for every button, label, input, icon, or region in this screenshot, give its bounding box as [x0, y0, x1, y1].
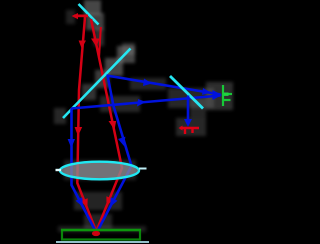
lens right glint [139, 168, 147, 170]
compression artifact shading [54, 0, 233, 232]
arrowhead on B3 (into filament) [184, 119, 192, 127]
arrowhead on H2 [137, 99, 146, 107]
arrowhead on R2 lower [106, 196, 113, 206]
ray B2 (blue, mirror M2 down through lens to focus, left) [72, 109, 96, 231]
screen top face [61, 229, 141, 231]
bench line under screen [56, 241, 149, 243]
ray R2 (red, from mirror M1 down through lens to focus) [91, 19, 122, 230]
mirror M3 (plane mirror, 45 deg) [170, 76, 203, 109]
arrowhead on R1 mid [75, 127, 83, 136]
blue arrowhead into image F [213, 90, 223, 100]
lens left glint [56, 169, 62, 171]
image F arm blob [224, 93, 229, 96]
arrowhead on B2 lower [76, 197, 84, 207]
arrowhead on B1 lower [110, 197, 118, 207]
ray B1 (blue, mirror M2 down through lens to focus, right) [98, 76, 132, 231]
ray H2 (blue, from mirror M2 to image point F, lower) [71, 96, 221, 109]
image F glyph (green letter F) [223, 85, 232, 106]
filament glyph left tip [179, 126, 183, 131]
arrowhead on R1 upper [79, 41, 86, 49]
arrowhead on H1 mid [143, 79, 152, 87]
filament image glyph (red, rotated F) [180, 128, 199, 134]
object arrow (red, horizontal, points left) [72, 13, 89, 19]
arrowhead on H1 right [202, 88, 211, 95]
mirror M1 (plane mirror, 45 deg) [79, 4, 99, 25]
arrowhead on R2 upper [91, 39, 100, 48]
lens L1 (converging lens, ellipse) [60, 162, 139, 180]
arrowhead on R2 mid [109, 121, 117, 130]
arrowhead on B2 mid [68, 139, 75, 148]
ray B3 (blue, down from mirror M3 to filament image) [187, 96, 190, 122]
screen (green box) [62, 230, 140, 240]
ray H1 (blue, from mirror M2 to image point F) [107, 76, 221, 95]
arrowhead on R1 lower [81, 198, 88, 208]
arrowhead on B1 mid [118, 137, 125, 146]
ray R1 (red, from mirror M1 down through lens to focus) [77, 17, 95, 230]
ray R3 (red, short, from mirror M1 tip merging into R2) [99, 27, 101, 58]
mirror M2 (plane mirror, 45 deg, long) [63, 49, 131, 119]
focus spot (red) [92, 231, 100, 236]
